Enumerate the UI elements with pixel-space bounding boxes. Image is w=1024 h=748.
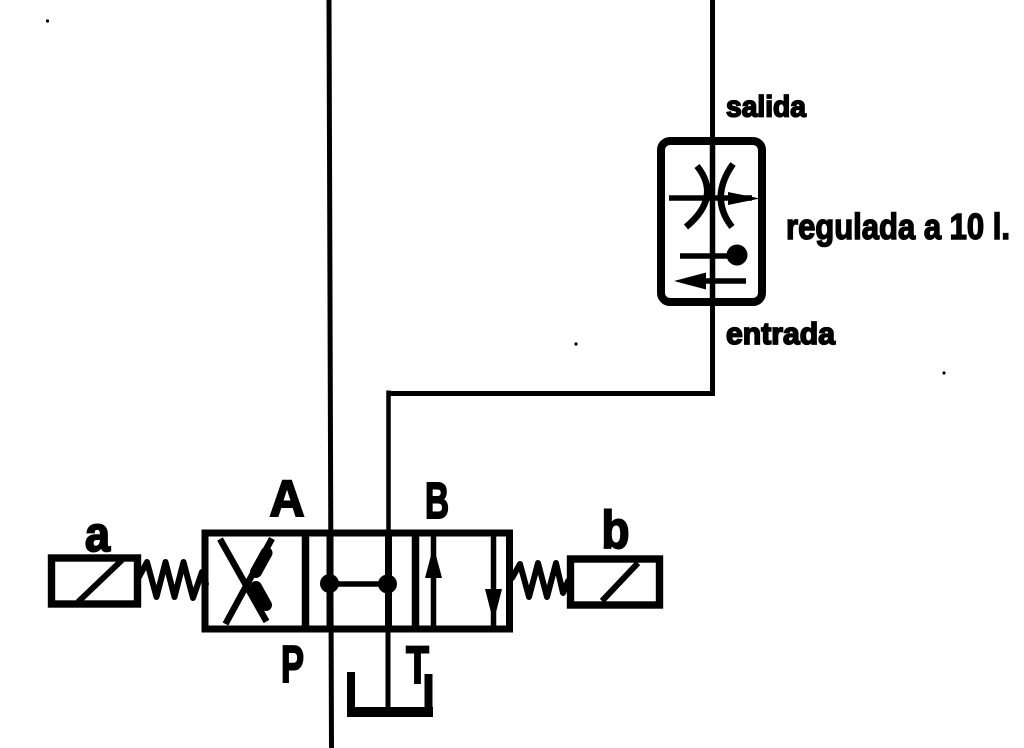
wire: port T to tank (386, 629, 391, 710)
solenoid a slash (78, 560, 122, 602)
flow control valve FC1 body (661, 141, 762, 302)
svg-text:A: A (270, 470, 305, 527)
wire: salida line (top to flow control valve) (710, 0, 715, 142)
speck top left (46, 19, 49, 22)
wire: horizontal link (387, 391, 716, 396)
wire: main pressure line (vertical, full height) (329, 0, 332, 748)
FC1 internal line (710, 141, 716, 302)
DV1 junction dot left (320, 574, 339, 593)
svg-text:b: b (602, 501, 630, 560)
DV1 left position crossed arrow 1 (220, 539, 267, 622)
DV1 left position crossed arrow 2 (226, 539, 273, 625)
solenoid b slash (602, 563, 638, 601)
DV1 centre position link bar (330, 581, 388, 587)
solenoid b box (571, 559, 660, 605)
FC1 adjustment arrow (669, 192, 760, 205)
wire: drop to valve port B (386, 391, 391, 535)
speck centre (574, 342, 577, 345)
svg-text:regulada a 10 l.: regulada a 10 l. (786, 206, 1010, 247)
directional valve DV1 body (205, 533, 510, 629)
FC1 free flow arrow (674, 273, 746, 290)
DV1 right position arrow up (425, 536, 442, 626)
svg-text:T: T (406, 636, 429, 695)
DV1 divider right (412, 533, 420, 629)
DV1 centre position through line A (327, 533, 334, 629)
tank (347, 672, 355, 716)
svg-text:a: a (85, 508, 111, 562)
DV1 divider left (302, 533, 310, 629)
FC1 throttle arc right (721, 164, 733, 227)
speck right (942, 371, 945, 374)
solenoid a box (52, 558, 138, 604)
DV1 junction dot right (378, 575, 397, 594)
svg-text:salida: salida (726, 91, 806, 124)
spring left (139, 562, 206, 598)
svg-text:P: P (281, 636, 304, 694)
wire: entrada line (flow control valve to corner) (710, 302, 715, 393)
DV1 centre position through line B (385, 533, 392, 629)
spring right (512, 563, 568, 597)
FC1 throttle arc left (686, 166, 707, 227)
svg-text:B: B (425, 472, 449, 529)
DV1 right position arrow down (485, 536, 502, 626)
svg-text:entrada: entrada (726, 316, 836, 351)
FC1 check valve ball (680, 245, 748, 266)
